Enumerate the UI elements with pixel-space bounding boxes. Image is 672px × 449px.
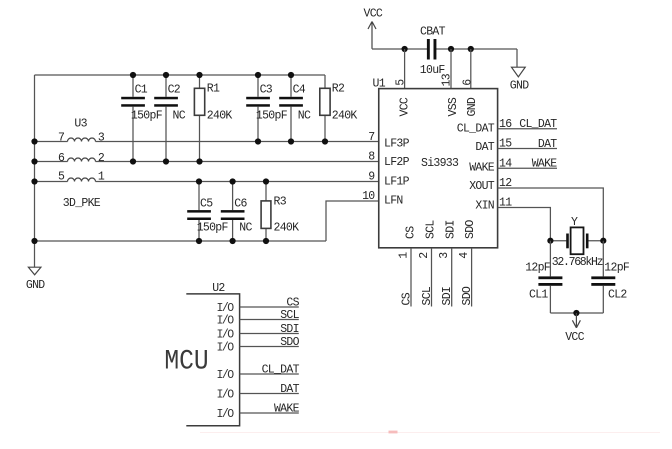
wire: CL bottom rail [550, 312, 603, 314]
U3 pin number 1 [98, 171, 105, 184]
svg-text:CBAT: CBAT [420, 26, 446, 39]
svg-text:9: 9 [368, 171, 375, 184]
U1 pin number 10 [362, 190, 375, 203]
U1 pin name WAKE [469, 161, 495, 174]
svg-text:240K: 240K [332, 109, 358, 122]
U1 pin name LF1P [384, 175, 410, 188]
svg-text:CS: CS [401, 292, 414, 305]
svg-text:VCC: VCC [399, 97, 412, 116]
svg-text:NC: NC [298, 109, 311, 122]
svg-text:6: 6 [462, 79, 475, 86]
U1 pin number 5 [395, 79, 408, 86]
svg-text:LF1P: LF1P [384, 175, 410, 188]
svg-text:8: 8 [368, 151, 375, 164]
resistor R3 [261, 182, 299, 242]
inductor U3 winding 1 (pins 7-3) [68, 138, 96, 142]
U1 pin name LFN [384, 195, 403, 208]
svg-text:Y: Y [571, 216, 578, 229]
wire: row LF3P (pins 7-3) [35, 141, 379, 143]
svg-text:1: 1 [98, 171, 105, 184]
U1 pin name GND [466, 97, 479, 116]
svg-text:C3: C3 [260, 84, 273, 97]
wire XOUT pin 12 to crystal [498, 177, 604, 241]
svg-text:SCL: SCL [425, 220, 438, 239]
svg-text:150pF: 150pF [256, 109, 288, 122]
svg-text:3D_PKE: 3D_PKE [63, 197, 101, 210]
MCU block U2 [164, 282, 239, 426]
svg-text:32.768kHz: 32.768kHz [552, 256, 603, 269]
svg-text:MCU: MCU [164, 345, 208, 377]
wire: bottom rail [35, 240, 327, 242]
inductor U3 winding 2 (pins 6-2) [68, 158, 96, 161]
svg-text:DAT: DAT [538, 138, 557, 151]
junction dots on bottom rail [31, 238, 269, 244]
wire: U1 GND pin 6 [470, 49, 472, 89]
svg-text:2: 2 [98, 152, 105, 165]
ground symbol top right [510, 49, 529, 93]
svg-text:XIN: XIN [475, 200, 494, 213]
svg-text:150pF: 150pF [131, 109, 163, 122]
svg-text:SDI: SDI [441, 287, 454, 306]
svg-text:240K: 240K [207, 109, 233, 122]
capacitor C6 [221, 182, 253, 242]
wire: LFN pin 10 to bottom rail [326, 201, 379, 241]
svg-text:R2: R2 [332, 82, 345, 95]
svg-text:VSS: VSS [447, 97, 460, 116]
U1 pin number 13 [440, 73, 453, 86]
svg-text:12pF: 12pF [604, 261, 630, 274]
svg-text:C6: C6 [234, 197, 247, 210]
svg-text:Si3933: Si3933 [421, 157, 459, 170]
svg-text:SDO: SDO [280, 336, 299, 349]
svg-text:5: 5 [395, 79, 408, 86]
svg-text:I/O: I/O [217, 315, 235, 328]
svg-text:7: 7 [58, 132, 64, 145]
U3 pin number 3 [98, 132, 105, 145]
capacitor C5 [187, 182, 228, 242]
wire: top rail [35, 74, 326, 76]
wire: left vertical bus with ground stem [34, 75, 36, 267]
svg-text:CL_DAT: CL_DAT [457, 122, 495, 135]
U1 pin name VCC [399, 97, 412, 116]
U1 pin name CL_DAT [457, 122, 495, 135]
junction dots at crystal nodes [547, 238, 606, 244]
svg-text:GND: GND [26, 279, 45, 292]
U1 pin number 9 [368, 171, 375, 184]
junction dots on top rail [130, 72, 294, 78]
crystal Y 32.768kHz [552, 216, 603, 269]
svg-text:2: 2 [418, 252, 431, 259]
svg-text:VCC: VCC [565, 331, 584, 344]
MCU pin I/O -> SDO [217, 336, 300, 355]
capacitor C1 [121, 75, 163, 162]
svg-text:CL1: CL1 [529, 288, 548, 301]
svg-text:14: 14 [499, 158, 512, 171]
U1 pin name SDI (bottom) [445, 220, 458, 239]
inductor U3 winding 3 (pins 5-1) [68, 178, 96, 182]
resistor R1 [194, 75, 232, 162]
wire + net label CL_DAT pin 16 [498, 118, 558, 131]
U1 pin name SDO (bottom) [464, 220, 477, 239]
svg-text:LF2P: LF2P [384, 156, 410, 169]
svg-text:SCL: SCL [421, 286, 434, 305]
svg-text:10: 10 [362, 190, 375, 203]
svg-text:I/O: I/O [217, 408, 235, 421]
wire U1 pin 3 SDI [438, 248, 454, 307]
svg-text:SCL: SCL [280, 309, 299, 322]
U1 pin number 8 [368, 151, 375, 164]
U1 pin name DAT [475, 141, 494, 154]
svg-text:VCC: VCC [364, 8, 383, 21]
U3 pin number 2 [98, 152, 105, 165]
svg-text:CS: CS [286, 296, 299, 309]
svg-text:U1: U1 [373, 78, 386, 91]
U1 pin number 7 [368, 131, 374, 144]
svg-text:SDI: SDI [280, 323, 299, 336]
svg-text:I/O: I/O [217, 342, 235, 355]
svg-text:I/O: I/O [217, 389, 235, 402]
MCU pin I/O -> CL_DAT [217, 363, 300, 382]
svg-text:WAKE: WAKE [532, 158, 558, 171]
wire: U1 VSS pin 13 [450, 49, 452, 89]
IC U1 Si3933 [373, 78, 498, 248]
junction dots on row 1 [31, 138, 328, 144]
U1 pin name LF3P [384, 138, 410, 151]
U1 pin name XOUT [469, 180, 495, 193]
svg-text:240K: 240K [274, 222, 300, 235]
junction dots on supply rail [402, 46, 474, 52]
svg-text:GND: GND [510, 80, 529, 93]
U1 pin name SCL (bottom) [425, 220, 438, 239]
U3 pin number 7 [58, 132, 64, 145]
capacitor C3 [246, 75, 288, 142]
svg-text:WAKE: WAKE [469, 161, 495, 174]
svg-text:11: 11 [499, 197, 512, 210]
svg-text:4: 4 [458, 252, 471, 259]
U1 pin number 6 [462, 79, 475, 86]
wire: row LF1P (pins 5-1) [35, 181, 379, 183]
resistor R2 [320, 75, 358, 142]
junction dots on row 2 [31, 158, 202, 164]
svg-text:I/O: I/O [217, 369, 235, 382]
svg-text:13: 13 [440, 73, 453, 86]
U3 value label 3D_PKE [63, 197, 101, 210]
svg-text:6: 6 [58, 152, 65, 165]
capacitor C4 [279, 75, 311, 142]
svg-text:C5: C5 [200, 197, 213, 210]
VCC power symbol top [364, 8, 383, 49]
svg-text:16: 16 [499, 118, 512, 131]
svg-text:CL2: CL2 [608, 288, 627, 301]
svg-text:GND: GND [466, 97, 479, 116]
svg-text:15: 15 [499, 138, 512, 151]
svg-text:CS: CS [405, 226, 418, 239]
U3 pin number 6 [58, 152, 65, 165]
capacitor CL1 [525, 241, 562, 313]
svg-text:C2: C2 [168, 84, 181, 97]
svg-text:SDI: SDI [445, 220, 458, 239]
svg-text:5: 5 [58, 171, 65, 184]
svg-text:CL_DAT: CL_DAT [519, 118, 557, 131]
svg-text:LFN: LFN [384, 195, 403, 208]
svg-text:NC: NC [173, 109, 186, 122]
svg-text:1: 1 [397, 252, 410, 259]
MCU pin I/O -> DAT [217, 383, 300, 402]
VCC arrow symbol bottom (pointing down) [565, 313, 584, 344]
svg-text:CL_DAT: CL_DAT [262, 363, 300, 376]
wire XIN pin 11 to crystal [498, 197, 567, 241]
MCU pin I/O -> CS [217, 296, 300, 315]
U1 pin name CS (bottom) [405, 226, 418, 239]
svg-text:U3: U3 [74, 118, 87, 131]
svg-text:DAT: DAT [475, 141, 494, 154]
svg-text:R3: R3 [274, 196, 287, 209]
svg-text:R1: R1 [207, 82, 220, 95]
svg-text:NC: NC [239, 222, 252, 235]
svg-text:SDO: SDO [461, 286, 474, 305]
wire: U1 VCC pin 5 [404, 49, 406, 89]
wire + net label WAKE pin 14 [498, 158, 558, 171]
MCU pin I/O -> WAKE [217, 402, 300, 421]
wire + net label DAT pin 15 [498, 138, 558, 151]
U3 reference label [74, 118, 87, 131]
wire: row LF2P (pins 6-2) [35, 161, 379, 163]
MCU pin I/O -> SCL [217, 309, 300, 328]
capacitor CBAT [420, 26, 446, 78]
svg-text:DAT: DAT [280, 383, 299, 396]
svg-text:150pF: 150pF [197, 222, 229, 235]
U1 pin name LF2P [384, 156, 410, 169]
junction dot CL rail [573, 310, 579, 316]
wire U1 pin 4 SDO [458, 248, 474, 307]
svg-text:12pF: 12pF [525, 261, 551, 274]
U1 pin name VSS [447, 97, 460, 116]
svg-text:3: 3 [438, 252, 451, 259]
svg-text:3: 3 [98, 132, 105, 145]
svg-text:7: 7 [368, 131, 374, 144]
svg-text:XOUT: XOUT [469, 180, 495, 193]
svg-text:WAKE: WAKE [274, 402, 300, 415]
ground symbol lower left [26, 267, 45, 292]
wire U1 pin 1 CS [397, 248, 413, 307]
wire U1 pin 2 SCL [418, 248, 434, 307]
watermark artifact (faint pink dash) [200, 431, 660, 434]
svg-text:C4: C4 [293, 84, 306, 97]
junction dots on row 3 [31, 178, 269, 184]
svg-text:LF3P: LF3P [384, 138, 410, 151]
MCU pin I/O -> SDI [217, 323, 299, 342]
svg-text:C1: C1 [135, 84, 148, 97]
U1 pin name XIN [475, 200, 494, 213]
svg-text:12: 12 [499, 177, 512, 190]
svg-text:SDO: SDO [464, 220, 477, 239]
svg-text:I/O: I/O [217, 329, 235, 342]
svg-text:I/O: I/O [217, 302, 235, 315]
capacitor CL2 [591, 241, 630, 313]
svg-text:U2: U2 [212, 282, 225, 295]
wire: VCC supply rail [372, 48, 517, 50]
U3 pin number 5 [58, 171, 65, 184]
capacitor C2 [154, 75, 186, 162]
